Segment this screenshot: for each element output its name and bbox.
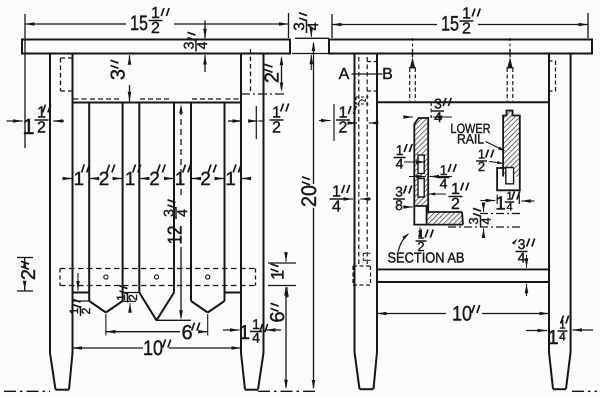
svg-text:4: 4 (305, 22, 322, 30)
svg-text:20: 20 (298, 185, 321, 207)
svg-text:4: 4 (252, 329, 260, 345)
svg-text:SECTION AB: SECTION AB (388, 251, 465, 267)
svg-text:2: 2 (126, 294, 140, 301)
svg-text:A: A (339, 66, 350, 83)
svg-text:4: 4 (559, 329, 566, 343)
svg-text:2: 2 (272, 119, 281, 136)
svg-text:2: 2 (18, 269, 40, 280)
svg-text:2: 2 (451, 196, 460, 213)
svg-text:6: 6 (267, 311, 289, 322)
svg-text:2: 2 (79, 307, 93, 314)
svg-text:1: 1 (547, 327, 558, 349)
svg-text:2: 2 (151, 20, 160, 37)
svg-text:1: 1 (22, 114, 34, 139)
svg-text:2: 2 (462, 20, 471, 37)
svg-text:1: 1 (495, 194, 506, 215)
svg-text:12: 12 (165, 226, 187, 245)
svg-text:4: 4 (518, 249, 526, 265)
svg-text:RAIL: RAIL (457, 132, 484, 147)
svg-text:4: 4 (506, 202, 512, 214)
svg-text:4: 4 (194, 41, 210, 49)
svg-text:4: 4 (479, 217, 494, 224)
svg-text:8: 8 (395, 197, 403, 213)
svg-text:2: 2 (262, 72, 284, 83)
svg-text:4: 4 (440, 175, 448, 191)
svg-text:2: 2 (339, 119, 348, 136)
svg-text:2: 2 (37, 119, 46, 136)
svg-text:10: 10 (452, 303, 472, 326)
svg-text:4: 4 (332, 198, 341, 215)
svg-text:6: 6 (181, 322, 192, 344)
svg-text:4: 4 (174, 209, 190, 217)
svg-text:2: 2 (478, 159, 485, 174)
svg-text:10: 10 (143, 337, 163, 360)
svg-text:1: 1 (239, 322, 250, 344)
svg-text:15: 15 (130, 12, 148, 35)
svg-text:4: 4 (396, 155, 404, 171)
svg-text:3: 3 (108, 69, 130, 80)
svg-text:15: 15 (441, 13, 459, 36)
svg-text:B: B (382, 66, 393, 83)
